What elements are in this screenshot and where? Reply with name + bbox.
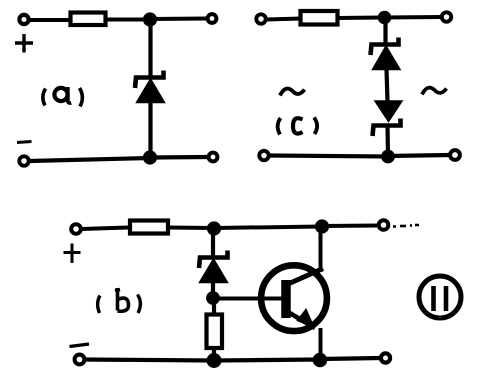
terminal input- (b) [75, 355, 85, 365]
terminal output+ (b) [379, 220, 389, 230]
minus label (a) [17, 142, 32, 143]
wire junction B to right terminal (b) [322, 224, 378, 229]
wire resistor to junction (a) [106, 18, 150, 22]
junction node C base (b) [206, 291, 220, 305]
wire emitter (b) [319, 328, 323, 360]
terminal output- (a) [209, 153, 218, 162]
transistor Q1 collector diagonal [288, 269, 323, 285]
junction node top (a) [143, 12, 157, 26]
resistor R4 [207, 315, 223, 349]
wire junction A to zener D4 (b) [211, 229, 215, 258]
wire vertical to zener (a) [148, 20, 152, 78]
wire bottom-left (b) [84, 360, 214, 361]
resistor R2 [301, 11, 338, 25]
terminal right-top (c) [442, 12, 451, 21]
label (a) [43, 87, 83, 107]
wire zener to bottom junction (c) [385, 125, 390, 157]
plus label (b) [64, 244, 81, 264]
figure badge 11 [419, 276, 461, 318]
terminal left-top (c) [256, 14, 265, 23]
terminal input- (a) [19, 156, 28, 165]
AC tilde left (c) [280, 89, 305, 96]
resistor R3 [130, 221, 168, 234]
wire top-left (c) [266, 19, 301, 20]
junction node E emitter (b) [313, 353, 328, 368]
wire junction to right terminal (a) [150, 17, 207, 22]
terminal input+ (b) [71, 224, 81, 234]
terminal right-bottom (c) [450, 150, 460, 160]
zener diode D3 cathode bar [373, 119, 401, 137]
plus label (a) [15, 34, 33, 53]
zener diode D1 anode triangle [137, 79, 165, 103]
zener diode D3 anode triangle [375, 101, 402, 122]
zener diode D4 cathode bar [199, 251, 228, 269]
zener diode D4 anode triangle [200, 259, 228, 283]
wire resistor R4 to junction D (b) [212, 348, 216, 360]
terminal input+ (a) [19, 15, 28, 24]
label (b) [98, 288, 141, 313]
label (c) [278, 118, 318, 135]
wire vertical to zener D2 (c) [383, 18, 387, 45]
transistor Q1 base bar [281, 280, 291, 318]
terminal output+ (a) [208, 14, 217, 23]
junction node A (b) [207, 221, 221, 235]
zener diode D2 cathode bar [371, 38, 399, 56]
wire junction A to junction B (b) [214, 227, 322, 229]
wire bottom-left (a) [29, 158, 150, 161]
wire zener to junction C (b) [211, 282, 215, 298]
transistor Q1 circle [261, 265, 327, 331]
transistor Q1 emitter arrow [298, 310, 314, 327]
wire collector (b) [319, 228, 323, 272]
wire zener to bottom junction (a) [148, 102, 152, 158]
wire bottom-right (a) [150, 155, 208, 160]
wire bottom-middle (b) [214, 360, 320, 361]
wire junction C to resistor R4 (b) [212, 298, 216, 315]
minus label (b) [70, 344, 90, 347]
junction node bottom (c) [381, 150, 395, 164]
junction node top (c) [378, 11, 392, 25]
wire bottom-right (c) [388, 155, 450, 156]
wire top-left (b) [81, 228, 130, 230]
wire bottom-left (c) [269, 156, 388, 157]
transistor Q1 emitter diagonal [288, 312, 315, 328]
zener diode D2 anode triangle [373, 46, 401, 70]
wire top-left (a) [29, 18, 70, 22]
junction node D (b) [207, 353, 222, 368]
dashed continuation (b) [393, 225, 419, 227]
junction node bottom (a) [143, 150, 157, 164]
terminal output- (b) [381, 353, 390, 362]
wire between zeners (c) [387, 69, 388, 102]
resistor R1 [71, 13, 106, 26]
wire bottom-right (b) [320, 358, 381, 359]
terminal left-bottom (c) [259, 151, 268, 160]
AC tilde right (c) [422, 88, 447, 95]
wire junction to right terminal (c) [384, 15, 441, 20]
junction node B collector (b) [315, 219, 329, 233]
wire resistor to junction (c) [337, 16, 384, 21]
wire base (b) [213, 297, 287, 301]
zener diode D1 cathode bar [135, 71, 164, 89]
wire resistor to junction A (b) [168, 226, 214, 231]
